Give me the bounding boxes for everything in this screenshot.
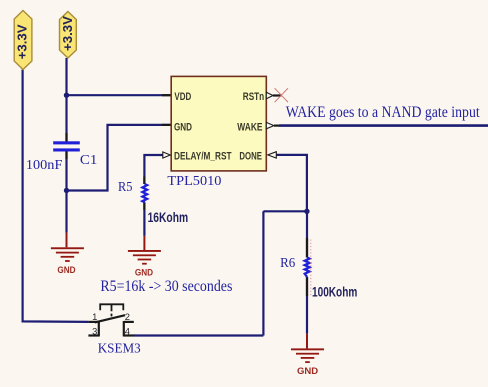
svg-text:GND: GND	[57, 265, 75, 276]
svg-text:1: 1	[92, 311, 97, 322]
svg-text:16Kohm: 16Kohm	[148, 209, 189, 225]
svg-text:R5=16k -> 30 secondes: R5=16k -> 30 secondes	[100, 278, 232, 295]
svg-text:R6: R6	[280, 256, 295, 271]
svg-text:2: 2	[125, 311, 130, 322]
svg-text:GND: GND	[174, 121, 192, 133]
svg-text:3: 3	[92, 325, 97, 336]
svg-text:RSTn: RSTn	[243, 91, 265, 103]
svg-text:100nF: 100nF	[26, 158, 63, 173]
svg-text:+3.3V: +3.3V	[60, 16, 75, 51]
svg-text:4: 4	[125, 326, 130, 337]
svg-text:VDD: VDD	[174, 91, 191, 103]
svg-text:100Kohm: 100Kohm	[312, 283, 357, 299]
svg-text:WAKE goes to a NAND gate input: WAKE goes to a NAND gate input	[286, 104, 480, 121]
svg-text:DONE: DONE	[239, 150, 262, 162]
svg-text:DELAY/M_RST: DELAY/M_RST	[174, 150, 232, 162]
svg-text:GND: GND	[135, 267, 153, 278]
svg-text:WAKE: WAKE	[237, 121, 262, 133]
svg-text:R5: R5	[118, 180, 132, 195]
svg-text:C1: C1	[80, 153, 97, 168]
svg-text:GND: GND	[297, 366, 318, 377]
svg-text:TPL5010: TPL5010	[167, 174, 221, 189]
svg-text:KSEM3: KSEM3	[98, 342, 141, 357]
svg-text:+3.3V: +3.3V	[15, 24, 30, 59]
